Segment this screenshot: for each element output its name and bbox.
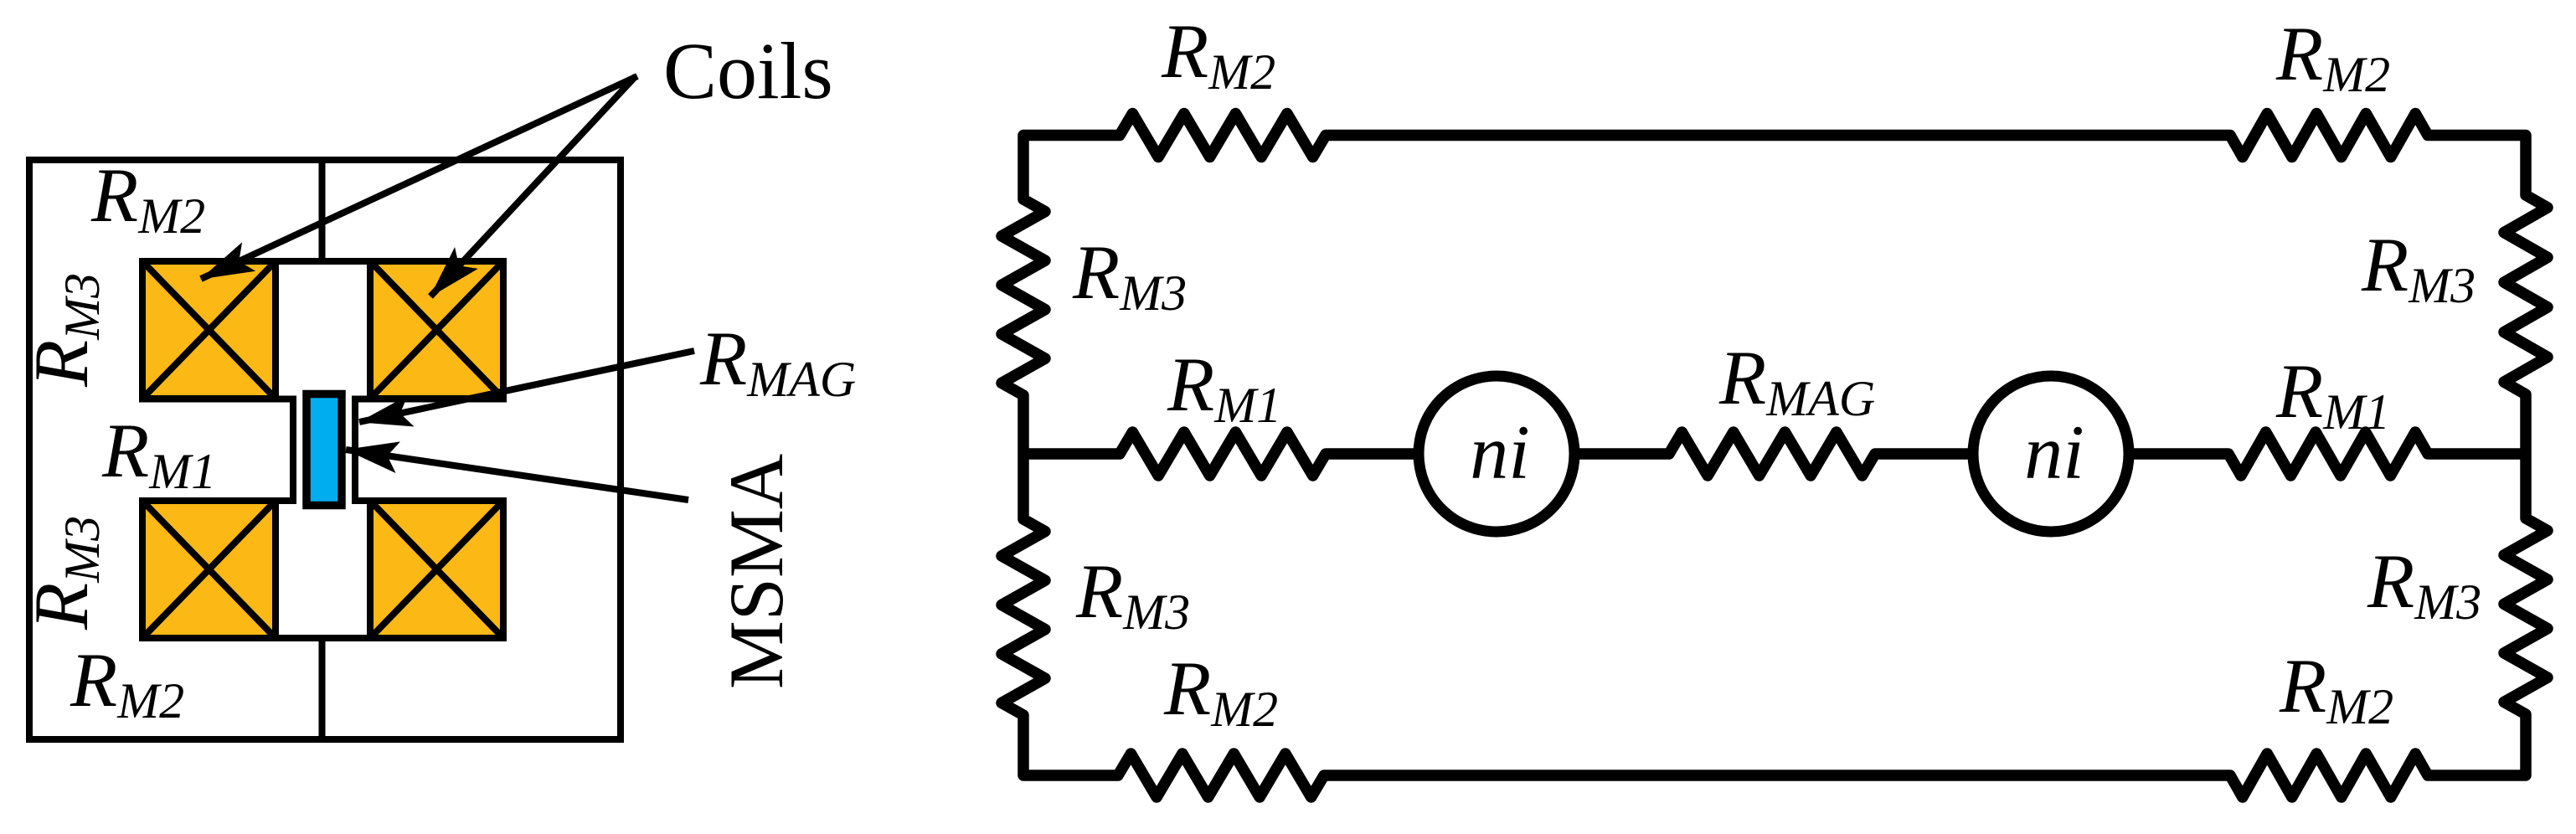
coil top-left: [142, 261, 276, 399]
mmf source ni right: [1973, 376, 2129, 532]
wire middle-left with resistor RM1 left: [1023, 432, 1420, 476]
core center limb top line: [319, 160, 326, 261]
arrow MSMA to blue element: [346, 450, 688, 500]
svg-text:MSMA: MSMA: [714, 454, 799, 689]
arrow Coils to top-left coil: [201, 76, 637, 279]
wire middle with resistor RMAG: [1573, 432, 1976, 476]
coil bottom-right: [370, 501, 503, 638]
pole notch left: [139, 399, 293, 502]
top yoke line above coils: [139, 258, 507, 265]
core center limb bottom line: [319, 638, 326, 739]
core outer frame: [29, 160, 621, 739]
pole notch right: [355, 399, 507, 502]
wire middle-right with resistor RM1 right: [2125, 432, 2526, 476]
mmf source ni left: [1419, 376, 1574, 532]
outer loop: top wire with RM2 resistors, right rail with RM3 resistors, bottom wire with RM2 resistors, left rail with RM3 resistors: [1002, 114, 2548, 798]
svg-text:Coils: Coils: [663, 26, 833, 116]
coil top-right: [370, 261, 503, 399]
arrow Coils to top-right coil: [430, 76, 636, 296]
arrow RMAG to air gap: [359, 351, 694, 422]
bottom yoke line below coils: [139, 635, 507, 641]
coil bottom-left: [142, 501, 276, 638]
svg-text:ni: ni: [1470, 409, 1530, 495]
MSMA element (blue): [307, 394, 342, 506]
svg-text:ni: ni: [2024, 409, 2084, 495]
